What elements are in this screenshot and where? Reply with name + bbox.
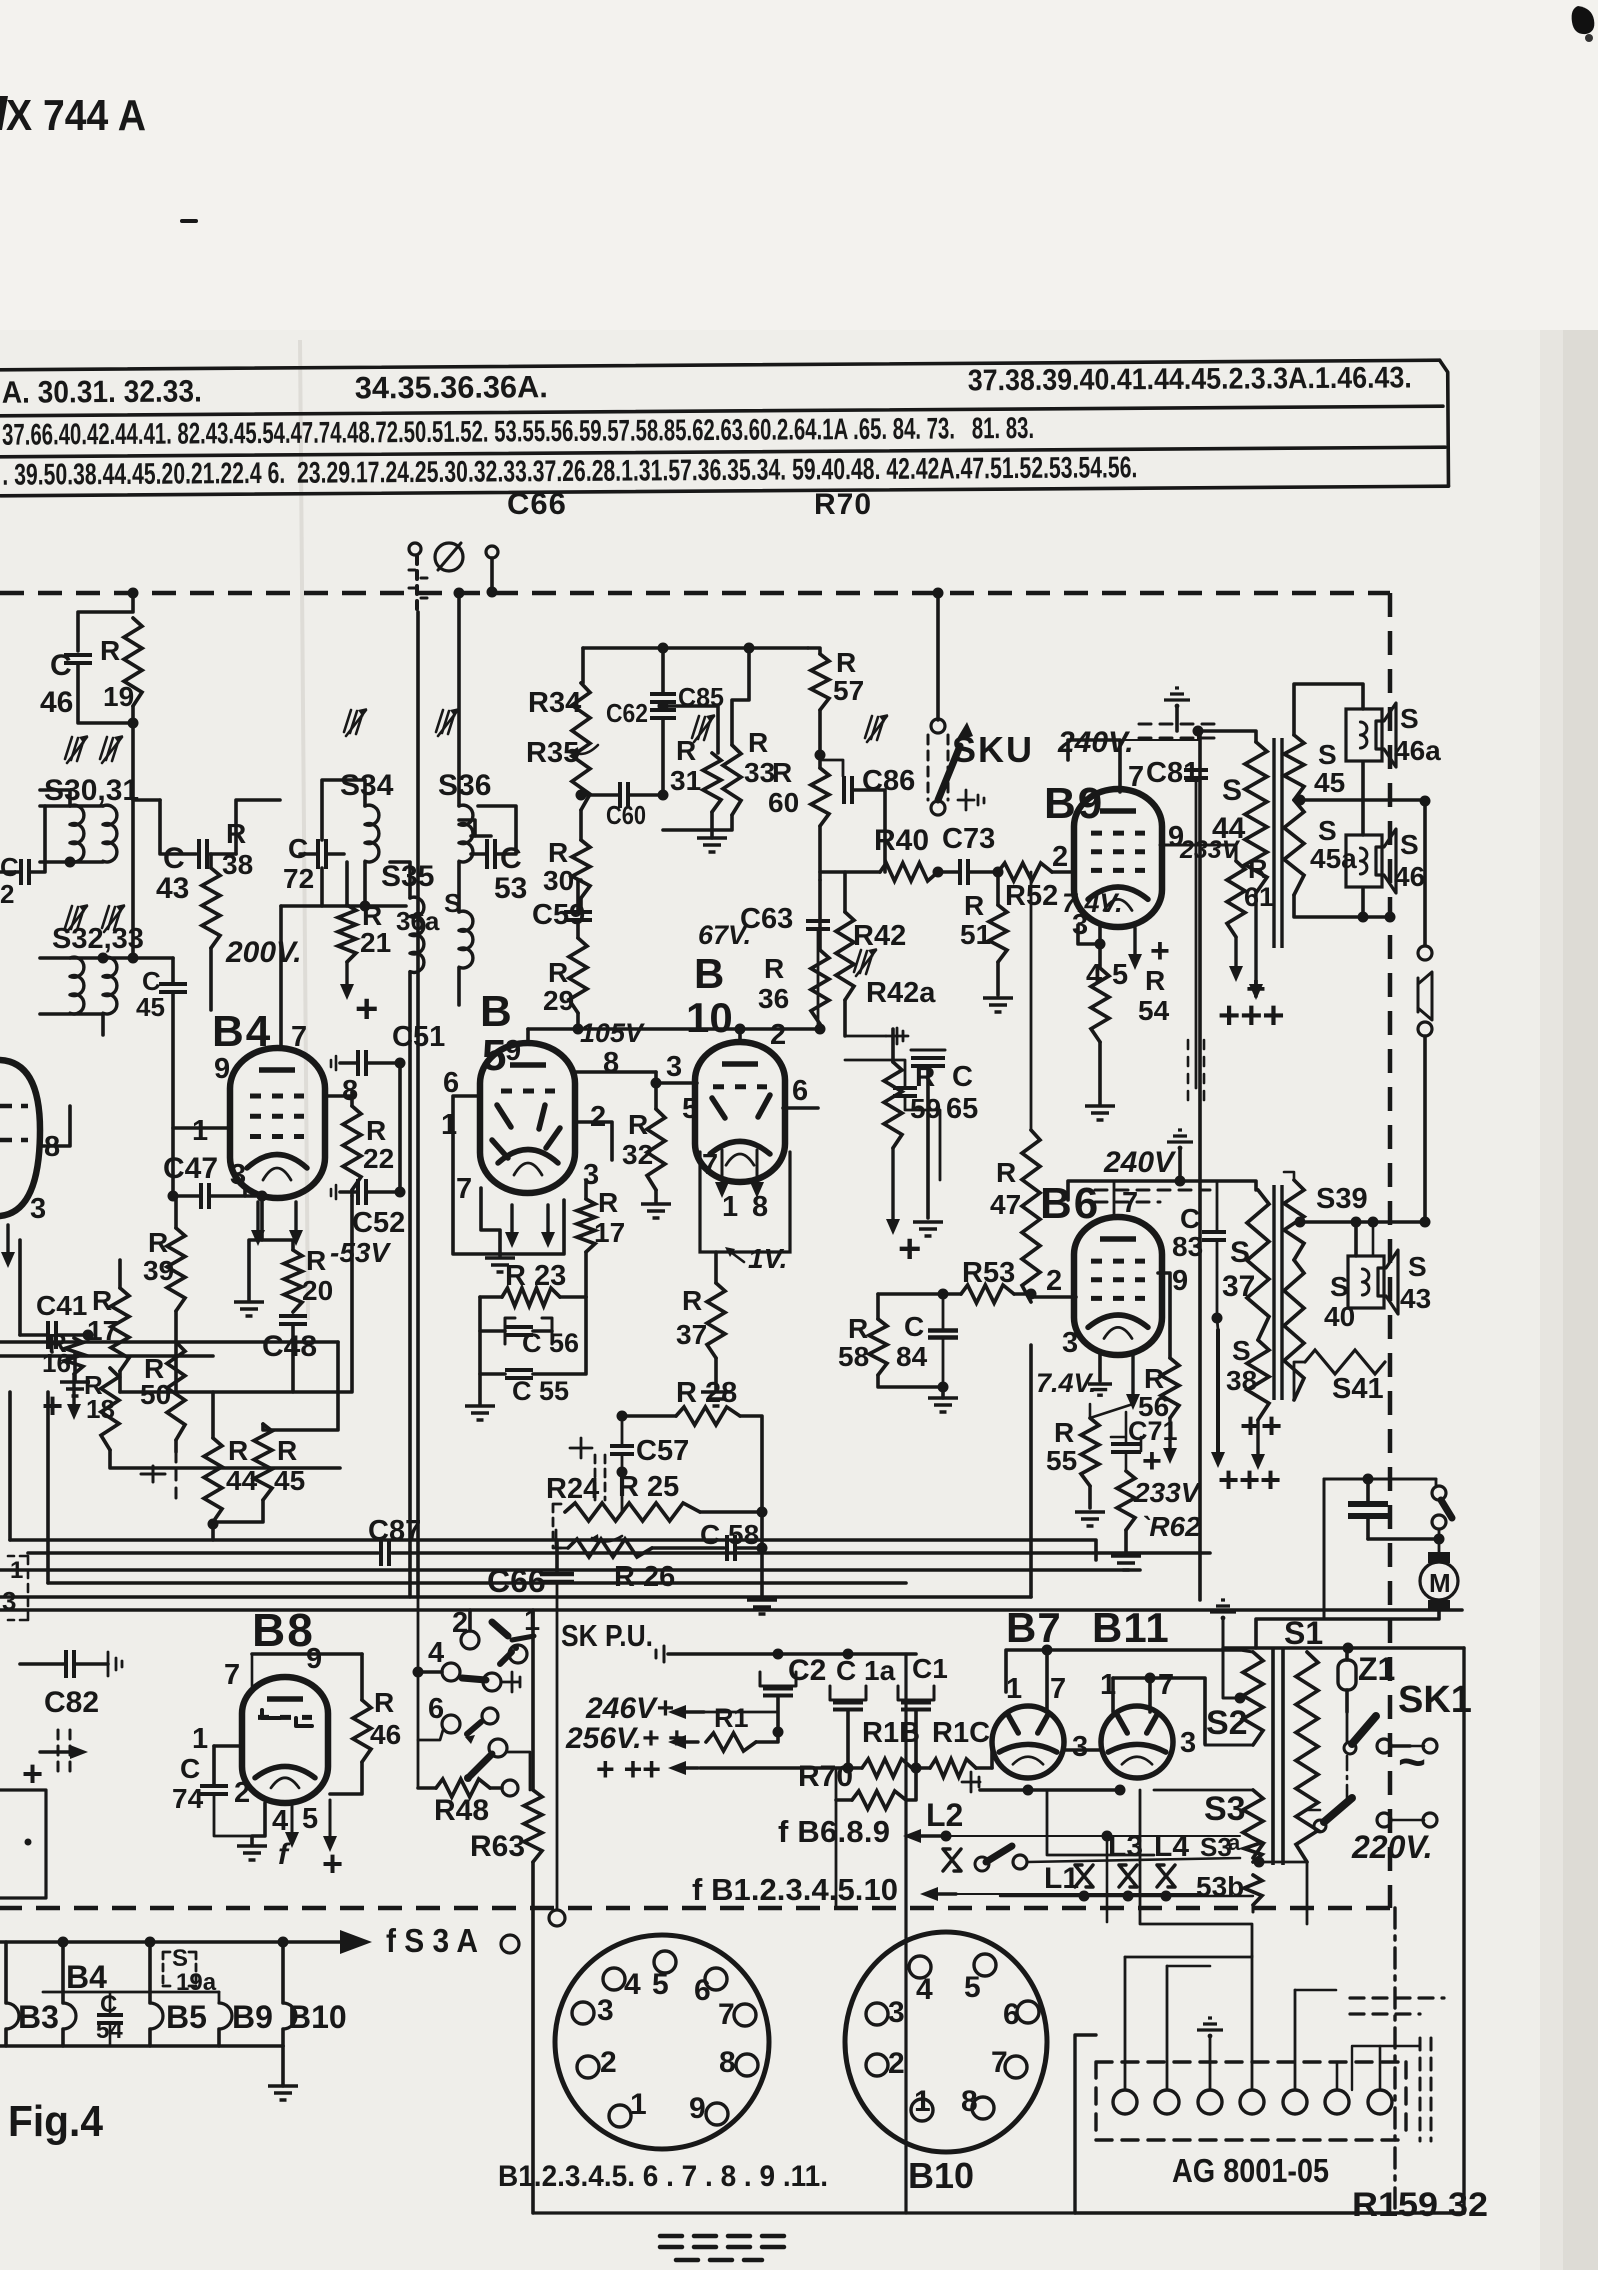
junction C84 bottom — [938, 1382, 949, 1393]
svg-text:7: 7 — [1122, 1187, 1138, 1219]
wire C85 — [661, 648, 665, 694]
junction S34 bottom — [360, 901, 371, 912]
trimmer arrows mid pair — [65, 906, 84, 930]
wire R20 branch — [262, 1240, 293, 1250]
wire x906 bottom — [533, 2211, 906, 2214]
resistor R1 — [706, 1733, 756, 1751]
svg-text:C48: C48 — [262, 1330, 317, 1363]
blade contact4 — [462, 1678, 486, 1680]
junction C60 right — [658, 790, 669, 801]
tube B10 — [695, 1042, 785, 1182]
core S37 — [1274, 1185, 1282, 1400]
antenna terminal right — [486, 546, 498, 558]
capacitor C83 — [1202, 1232, 1226, 1240]
capacitor C81 — [1184, 770, 1208, 778]
wire blade2 root — [1307, 1809, 1320, 1812]
svg-text:34.35.36.36A.: 34.35.36.36A. — [355, 369, 548, 405]
svg-text:C2: C2 — [788, 1654, 826, 1687]
svg-text:1: 1 — [1006, 1673, 1022, 1705]
capacitor C84 — [928, 1331, 958, 1338]
S19a dashed box — [163, 1952, 196, 1986]
arrow +++ — [682, 1766, 698, 1769]
junction cath B11 — [1115, 1785, 1126, 1796]
trimmer R42 — [854, 950, 873, 974]
AG terminals — [1113, 2090, 1137, 2114]
coil S33 — [103, 957, 117, 1014]
resistor R62 — [1117, 1471, 1135, 1530]
svg-text:2: 2 — [770, 1019, 786, 1051]
resistor R1C — [930, 1759, 976, 1777]
wire AG t6 — [1336, 2062, 1339, 2090]
coil S35 — [410, 897, 424, 972]
chassis cap SKU — [958, 790, 984, 810]
junction anode B9 — [1193, 726, 1204, 737]
svg-text:AG 8001-05: AG 8001-05 — [1172, 2152, 1329, 2189]
wire R31 bottom — [663, 812, 712, 830]
wire cath rail — [1078, 925, 1100, 944]
svg-text:C 1a: C 1a — [836, 1655, 896, 1686]
svg-text:++: ++ — [1240, 1405, 1282, 1446]
svg-text:C: C — [1180, 1203, 1200, 1234]
svg-text:8: 8 — [603, 1047, 619, 1079]
wire B4 anode up — [279, 906, 283, 1048]
winding S37 — [1247, 1190, 1269, 1340]
svg-text:22: 22 — [363, 1143, 394, 1174]
arrow R16 — [72, 1374, 75, 1406]
svg-text:46: 46 — [40, 686, 73, 719]
svg-text:C51: C51 — [392, 1021, 445, 1053]
svg-text:R: R — [748, 727, 768, 758]
wire gnd-S2 — [1223, 1618, 1240, 1698]
wire 246 rail — [700, 1711, 778, 1714]
svg-text:+: + — [322, 1843, 343, 1884]
wire R38 leads — [209, 854, 213, 868]
screened dash B6 — [1095, 1190, 1210, 1202]
motor brush bottom — [1428, 1600, 1450, 1610]
resistor R16 — [65, 1338, 83, 1374]
svg-text:1: 1 — [722, 1191, 738, 1223]
svg-text:S: S — [444, 888, 461, 918]
svg-text:R63: R63 — [470, 1830, 525, 1863]
resistor R36 — [811, 950, 829, 1024]
wire SKU vertical — [936, 593, 940, 720]
wire R46 bottom — [330, 1762, 362, 1794]
wire R26 right — [652, 1546, 724, 1550]
svg-text:+: + — [355, 987, 378, 1031]
wire R22 bottom — [350, 1190, 354, 1196]
contact low SKPU — [489, 1739, 507, 1757]
resistor R42 — [836, 912, 854, 1000]
wire gnd B6 — [1178, 1148, 1182, 1181]
arrow 246V — [682, 1710, 704, 1713]
svg-text:37: 37 — [676, 1319, 707, 1350]
svg-text:S: S — [1400, 703, 1419, 734]
svg-text:59: 59 — [910, 1093, 941, 1124]
wire B5 pin2 — [575, 1122, 612, 1160]
svg-text:S41: S41 — [1332, 1373, 1384, 1405]
svg-text:30: 30 — [543, 865, 574, 896]
svg-text:C: C — [288, 833, 308, 864]
arrows in B10 box — [721, 1150, 724, 1184]
dash-dot mains — [1346, 1756, 1349, 1800]
winding S40 — [1284, 1260, 1304, 1400]
wire S36a bottom — [457, 968, 461, 1005]
svg-text:R1: R1 — [714, 1703, 749, 1733]
svg-text:200V.: 200V. — [225, 936, 302, 969]
terminal below border C66 — [549, 1910, 565, 1926]
svg-text:R: R — [548, 837, 568, 868]
wire coil tops — [40, 804, 103, 808]
svg-text:6: 6 — [792, 1075, 808, 1107]
capacitor C65 — [911, 1058, 945, 1066]
capacitor motor — [1348, 1504, 1388, 1516]
terminal R48 — [502, 1780, 518, 1796]
wire B10 pin6 — [783, 1106, 818, 1110]
ext speaker symbol — [1418, 972, 1432, 1020]
svg-text:58: 58 — [838, 1341, 869, 1372]
resistor R39 — [167, 1228, 185, 1311]
winding S45 — [1284, 735, 1304, 800]
svg-text:S32,33: S32,33 — [52, 923, 144, 955]
sk1 box left low — [1075, 2035, 1096, 2213]
capacitor C85 — [650, 694, 676, 702]
svg-text:3: 3 — [888, 1996, 905, 2029]
resistor R23 — [502, 1288, 560, 1306]
wire C81 down — [1195, 778, 1198, 1088]
junction C83 bottom — [1212, 1313, 1223, 1324]
wire R52 right — [1052, 870, 1075, 874]
wire R1C to B7 — [990, 1750, 994, 1768]
wire C47 — [173, 1194, 200, 1198]
contact circle SKU top — [931, 719, 945, 733]
wire S35 bottom long — [408, 972, 412, 1597]
svg-text:21: 21 — [360, 927, 391, 958]
svg-text:B4: B4 — [66, 1959, 107, 1995]
rail B11 top — [1113, 1678, 1205, 1744]
wire R29 — [576, 920, 580, 938]
junction dot x133 on border — [128, 588, 139, 599]
filament vert x63 — [61, 1942, 65, 2003]
svg-text:5: 5 — [964, 1971, 981, 2004]
wire R40 left — [820, 870, 880, 874]
wire R35 bottom — [579, 810, 583, 840]
wire B10 anode — [738, 1029, 742, 1042]
svg-text:SK1: SK1 — [1398, 1679, 1472, 1721]
junction lamps — [1079, 1891, 1090, 1902]
capacitor C48 — [279, 1316, 307, 1324]
core S44/45 — [1274, 738, 1282, 948]
wire C59 top — [576, 880, 580, 912]
wire R36 — [818, 880, 822, 950]
svg-text:C62: C62 — [606, 698, 648, 728]
wire Z1 to blade — [1346, 1712, 1349, 1742]
wire R58 left — [876, 1294, 880, 1319]
svg-text:L2: L2 — [926, 1797, 963, 1833]
ground B4 — [234, 1302, 264, 1316]
svg-text:S: S — [1400, 829, 1419, 860]
wire heater3 — [1166, 1966, 1169, 2090]
double-dash marks bottom — [660, 2236, 786, 2247]
svg-text:3: 3 — [30, 1193, 46, 1225]
svg-text:19: 19 — [103, 681, 134, 712]
svg-text:S3: S3 — [1204, 1790, 1246, 1828]
wire C46R19 top — [78, 593, 133, 651]
wire S34 bottom — [363, 862, 367, 906]
svg-text:9: 9 — [306, 1643, 322, 1675]
wire S3 top — [1154, 1789, 1253, 1792]
wire C62 bottom — [661, 718, 665, 795]
svg-text:7: 7 — [1158, 1669, 1174, 1701]
wire R38 top — [236, 800, 280, 854]
svg-text:B6: B6 — [1040, 1179, 1100, 1228]
junction R58 node — [938, 1289, 949, 1300]
svg-text:6: 6 — [1003, 1998, 1020, 2031]
junction border y917 — [1385, 912, 1396, 923]
arrow 1V — [728, 1250, 744, 1262]
svg-text:L3: L3 — [1108, 1830, 1143, 1863]
wire B5 anode — [526, 1029, 530, 1043]
capacitor C74 — [200, 1786, 228, 1794]
junction S2 tap — [1235, 1693, 1246, 1704]
ground R28 chain — [747, 1600, 777, 1614]
svg-text:L4: L4 — [1154, 1830, 1189, 1863]
junction x63 — [58, 1937, 69, 1948]
junction x1107 — [1102, 1831, 1113, 1842]
svg-text:R: R — [548, 957, 568, 988]
svg-text:R48: R48 — [434, 1794, 489, 1827]
terminal fS3A — [501, 1935, 519, 1953]
wire coil2 tops — [40, 956, 133, 960]
stray dash mark — [182, 219, 196, 223]
coil S34 — [365, 805, 379, 862]
svg-text:1: 1 — [630, 2088, 647, 2121]
svg-text:B: B — [694, 950, 724, 997]
parts list table — [0, 360, 1448, 496]
filament bottom rail — [0, 2044, 283, 2048]
resistor R28 — [676, 1407, 740, 1425]
wire R1C right — [976, 1766, 992, 1770]
junction C58 right — [757, 1543, 768, 1554]
svg-text:R: R — [226, 818, 246, 849]
contact mid2 SKPU — [482, 1708, 498, 1724]
winding S1 — [1296, 1652, 1318, 1862]
svg-text:45: 45 — [136, 992, 165, 1022]
svg-text:C: C — [952, 1061, 973, 1093]
svg-text:Z1: Z1 — [1358, 1651, 1395, 1687]
svg-text:R 23: R 23 — [505, 1260, 566, 1292]
wire S46 to border — [1363, 915, 1390, 919]
junction dot coil bottom — [65, 857, 76, 868]
wire cath rail B7B11 — [980, 1788, 1120, 1792]
svg-text:3: 3 — [1072, 1731, 1088, 1763]
svg-text:+++: +++ — [1218, 1459, 1281, 1500]
svg-text:S39: S39 — [1316, 1183, 1368, 1215]
capacitor C51 — [358, 1050, 366, 1076]
wire cath drop — [1047, 1790, 1154, 1855]
wire R25 right — [700, 1510, 762, 1514]
svg-text:S: S — [1318, 815, 1337, 846]
svg-text:+++: +++ — [1218, 995, 1285, 1037]
inner dash verticals AG — [1420, 2038, 1431, 2141]
resistor R60 — [811, 768, 829, 826]
svg-text:40: 40 — [1324, 1301, 1355, 1332]
ground R32 — [641, 1204, 671, 1218]
resistor R59 — [884, 1062, 902, 1148]
screened antenna lead (dashed) — [415, 556, 419, 612]
svg-text:57: 57 — [833, 675, 864, 706]
switch motor blade — [1441, 1500, 1452, 1518]
wire cathode B4 — [249, 1196, 262, 1300]
svg-text:45: 45 — [1314, 767, 1345, 798]
junction R36 rail — [815, 1024, 826, 1035]
svg-text:C: C — [50, 649, 72, 682]
wire S46a-S46 — [1361, 763, 1365, 835]
svg-text:84: 84 — [896, 1341, 928, 1372]
filament rail mid — [43, 1991, 219, 1994]
wire tap right — [1300, 1220, 1425, 1224]
svg-text:R34: R34 — [528, 687, 581, 719]
wire ext down — [1423, 1036, 1427, 1222]
resistor R57 — [811, 654, 829, 710]
svg-text:S34: S34 — [340, 769, 394, 802]
capacitor C47 — [201, 1183, 209, 1209]
svg-text:C87: C87 — [368, 1515, 421, 1547]
wire +++ rail — [700, 1766, 862, 1770]
wire SK1 a — [1391, 1744, 1410, 1748]
wire C83 — [1216, 1181, 1219, 1232]
junction cath B7 — [1023, 1785, 1034, 1796]
resistor R52 — [998, 863, 1052, 881]
svg-text:43: 43 — [1400, 1283, 1431, 1314]
svg-text:-53V: -53V — [330, 1237, 391, 1268]
dashed chassis border bottom — [0, 1906, 1390, 1911]
resistor R31 — [703, 753, 721, 812]
svg-text:46a: 46a — [1394, 735, 1441, 766]
wire R60 bottom — [818, 826, 822, 880]
wire x418 down — [417, 1597, 420, 1788]
screened leads SKU (dashed) — [928, 735, 948, 800]
svg-text:47: 47 — [990, 1189, 1021, 1220]
svg-text:f B1.2.3.4.5.10: f B1.2.3.4.5.10 — [692, 1872, 898, 1907]
wire R44 down — [211, 1524, 215, 1540]
capacitor C46 — [64, 655, 92, 663]
svg-text:31: 31 — [670, 765, 701, 796]
coil S31 right winding — [103, 805, 117, 862]
svg-text:Fig.4: Fig.4 — [8, 2097, 103, 2146]
wire R44 top — [211, 1392, 215, 1438]
blade contact1 — [492, 1622, 508, 1636]
arrow fB689 — [917, 1834, 943, 1837]
svg-text:46: 46 — [370, 1719, 401, 1750]
svg-text:B9: B9 — [232, 1999, 273, 2035]
svg-text:R: R — [148, 1227, 168, 1258]
junction C62 top — [658, 701, 669, 712]
wire C53 — [471, 834, 491, 838]
svg-text:2: 2 — [600, 2046, 617, 2079]
wire R30 bottom — [579, 898, 583, 912]
terminal circle ext2 — [1418, 1022, 1432, 1036]
wire B4 pin8 — [325, 1094, 352, 1098]
svg-text:5: 5 — [652, 1968, 669, 2001]
capacitor C52 — [358, 1179, 366, 1205]
svg-text:C1: C1 — [912, 1653, 948, 1684]
svg-text:1V.: 1V. — [748, 1243, 787, 1274]
terminal circle ext1 — [1418, 946, 1432, 960]
ground top B6 — [1167, 1130, 1193, 1142]
box B10 lower — [700, 1152, 790, 1252]
wire AG t7 — [1379, 2046, 1382, 2090]
wire contact4 — [418, 1670, 442, 1674]
svg-text:37.38.39.40.41.44.45.2.3.3A.1.: 37.38.39.40.41.44.45.2.3.3A.1.46.43. — [968, 361, 1412, 397]
svg-text:8: 8 — [752, 1191, 768, 1223]
partial tube B3 at page edge — [0, 1060, 40, 1216]
wire pin9 B6 to R56 — [1158, 1273, 1170, 1358]
resistor R70 — [852, 1791, 906, 1809]
wire C46 bottom — [78, 664, 133, 723]
arrow B8 mid — [291, 1806, 294, 1834]
wire coil2 bottoms — [40, 1014, 103, 1035]
svg-text:S2: S2 — [1206, 1704, 1248, 1742]
junction S1 rail — [1343, 1643, 1354, 1654]
svg-text:10: 10 — [686, 994, 733, 1041]
ground B5 — [485, 1258, 515, 1272]
svg-text:29: 29 — [543, 985, 574, 1016]
junction B10 grid — [651, 1078, 662, 1089]
svg-text:2: 2 — [590, 1101, 606, 1133]
svg-text:240V: 240V — [1103, 1146, 1177, 1179]
svg-text:R: R — [100, 635, 120, 666]
tube B9 — [1074, 789, 1162, 927]
rail 240V B6 — [1068, 1181, 1256, 1200]
wire heater4 — [1251, 1956, 1254, 2090]
lamp L4 — [1157, 1865, 1175, 1887]
resistor R54 — [1091, 968, 1109, 1042]
svg-text:7: 7 — [291, 1021, 307, 1053]
svg-text:38: 38 — [1226, 1365, 1257, 1396]
coil S36a lower — [459, 911, 473, 968]
svg-text:37: 37 — [1222, 1270, 1255, 1303]
audio box inner vert — [1029, 1345, 1033, 1597]
arrow B6 cath — [1131, 1354, 1134, 1396]
junction x150 — [145, 1937, 156, 1948]
wire R57 top — [808, 648, 820, 654]
junction R47 bottom — [1026, 1289, 1037, 1300]
arrow fS3A — [340, 1930, 372, 1954]
svg-text:53: 53 — [494, 872, 527, 905]
ground R37 — [701, 1392, 731, 1406]
resistor R17 — [111, 1288, 129, 1371]
big arrow down mid — [1216, 1330, 1220, 1454]
resistor R45 — [254, 1424, 272, 1500]
svg-text:R: R — [836, 647, 856, 678]
tuning indicator circle — [435, 543, 463, 571]
contact circle SKU bottom — [931, 801, 945, 815]
capacitor C60 — [620, 782, 628, 808]
wire heater5 — [1306, 1862, 1309, 1924]
svg-text:S36: S36 — [438, 769, 491, 802]
svg-text:R: R — [92, 1285, 112, 1316]
svg-text:3: 3 — [1180, 1727, 1196, 1759]
wire motor top — [1324, 1478, 1436, 1481]
svg-text:45: 45 — [274, 1465, 305, 1496]
wire R42 top — [843, 872, 847, 912]
wire B4 pin3 down — [243, 1186, 247, 1196]
capacitor under R42 — [893, 1088, 917, 1096]
svg-text:17: 17 — [594, 1217, 625, 1248]
svg-text:53b: 53b — [1196, 1871, 1244, 1902]
svg-text:R: R — [1054, 1417, 1074, 1448]
wire R51 — [996, 872, 1000, 905]
